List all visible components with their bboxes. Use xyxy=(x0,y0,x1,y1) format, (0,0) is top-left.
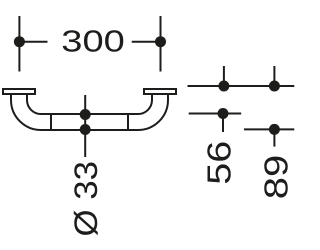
dot left (300 dim) xyxy=(14,36,25,47)
dot tube top xyxy=(80,109,91,120)
dot right (300 dim) xyxy=(155,36,166,47)
right flange xyxy=(144,89,176,94)
wall extension stub right xyxy=(273,66,275,86)
svg-text:300: 300 xyxy=(61,24,125,59)
left flange xyxy=(3,89,35,94)
dimension line 300 left segment xyxy=(19,41,47,43)
leader line diameter xyxy=(84,95,86,157)
svg-text:89: 89 xyxy=(257,155,294,200)
joint line left xyxy=(50,114,52,130)
joint line right xyxy=(127,114,129,130)
stub below 56 xyxy=(222,114,224,133)
grab bar tube outline xyxy=(11,95,168,130)
extension line left (300 dim) xyxy=(18,16,20,72)
svg-text:56: 56 xyxy=(200,141,237,185)
dimension line 89 xyxy=(244,128,294,130)
dot 89 xyxy=(269,124,280,135)
dot tube bottom xyxy=(80,124,91,135)
dimension line 56 xyxy=(189,113,242,115)
extension line right (300 dim) xyxy=(160,16,162,72)
dot wall left xyxy=(218,81,229,92)
stub below 89 xyxy=(273,129,275,146)
wall extension stub left xyxy=(223,66,225,86)
dot wall right xyxy=(269,81,280,92)
wall line (side view) xyxy=(188,85,295,87)
dot 56 xyxy=(218,108,229,119)
svg-text:Ø 33: Ø 33 xyxy=(68,161,104,237)
dimension line 300 right segment xyxy=(132,41,161,43)
